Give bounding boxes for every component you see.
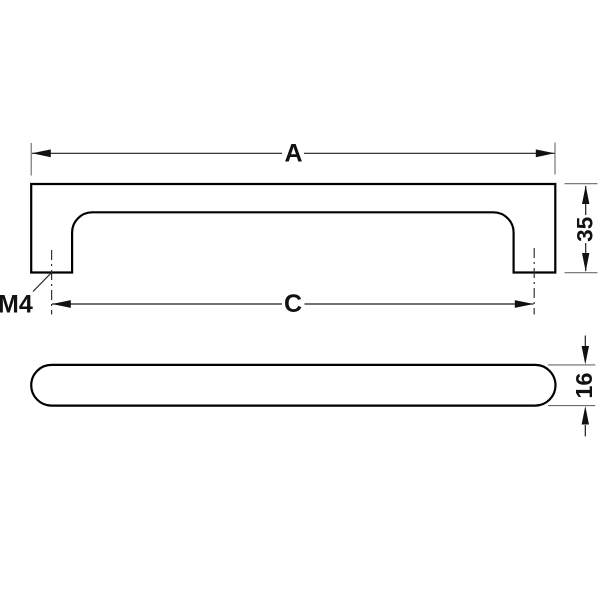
svg-text:35: 35 <box>572 217 597 242</box>
svg-text:A: A <box>284 140 302 168</box>
svg-text:16: 16 <box>571 373 597 399</box>
svg-text:M4: M4 <box>0 290 33 318</box>
svg-text:C: C <box>284 290 302 318</box>
